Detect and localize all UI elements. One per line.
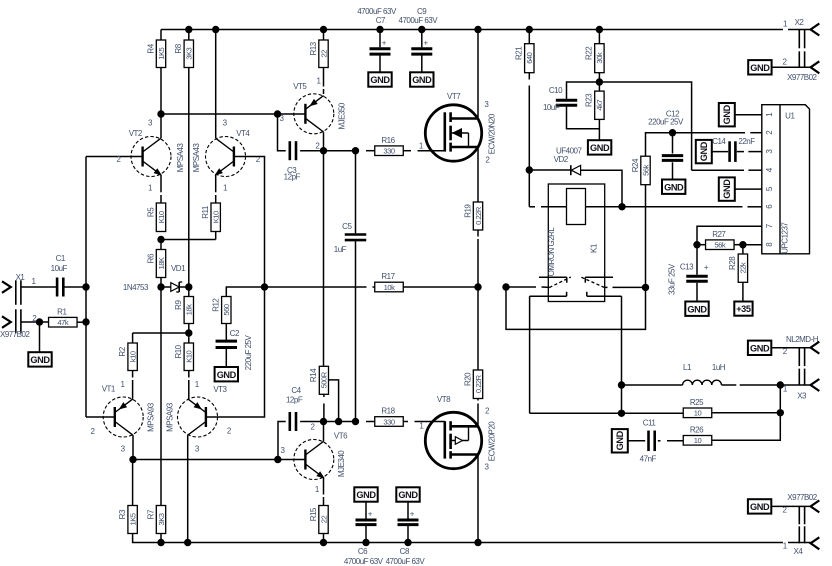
wire: R2 to VT1 emitter (132, 371, 134, 378)
junction: VT5 collector node (320, 147, 327, 154)
wire: VT6 base (278, 459, 306, 461)
svg-text:C5: C5 (342, 222, 352, 231)
inductor L1 1uH (622, 384, 683, 386)
svg-text:R23: R23 (585, 93, 594, 107)
svg-text:10uF: 10uF (51, 264, 68, 273)
wire: R9 to R10 node (188, 324, 190, 334)
wire: U1 pin 5 to GND (735, 188, 762, 190)
svg-text:MJE350: MJE350 (338, 102, 347, 129)
wire: speaker row to R25 row link (530, 412, 622, 414)
junction: VT5 base / C3 (274, 110, 281, 117)
wire: R7 to -rail (160, 534, 162, 543)
svg-text:22: 22 (319, 50, 328, 58)
relay contact left: moving arm (549, 277, 570, 288)
resistor R28 (742, 245, 744, 254)
wire: relay coil left pin (528, 170, 530, 207)
wire: VT2 collector to R4 node (160, 114, 162, 138)
svg-text:220uF 25V: 220uF 25V (648, 118, 684, 127)
wire: R4 bottom pin (160, 68, 162, 115)
svg-text:GND: GND (687, 304, 707, 314)
svg-text:C8: C8 (400, 547, 410, 556)
wire: VT4 emitter to R11 (215, 175, 217, 193)
svg-text:GND: GND (750, 502, 770, 512)
wire: delay node to U1 pin 4 (599, 82, 691, 170)
wire: U1 pin 1 to GND (735, 114, 762, 116)
svg-text:1uF: 1uF (334, 245, 347, 254)
svg-text:4700uF 63V: 4700uF 63V (344, 557, 384, 566)
wire: R1 left junction to GND (39, 322, 41, 352)
svg-text:10uF: 10uF (543, 103, 560, 112)
ground GND (R23) (588, 140, 611, 154)
wire: VT1 collector down (132, 435, 134, 459)
junction: X3 pin1 node (777, 381, 784, 388)
svg-text:GND: GND (590, 143, 610, 153)
junction: C9 on +rail (418, 26, 425, 33)
wire: U1 pin 2 row (673, 132, 746, 134)
svg-text:U1: U1 (785, 112, 795, 121)
svg-text:R10: R10 (174, 344, 183, 358)
wire: VT3 base to feedback node (206, 287, 264, 417)
junction: VT2 collector / R4 / VT5 base drive (157, 110, 164, 117)
svg-text:GND: GND (615, 430, 625, 450)
capacitor C5 1uF (355, 151, 357, 234)
svg-text:R21: R21 (515, 46, 524, 60)
svg-text:4700uF 63V: 4700uF 63V (357, 7, 397, 16)
resistor R17 (feedback 10k) (265, 286, 367, 288)
wire: VT4 base to feedback node (234, 157, 265, 288)
svg-text:10: 10 (694, 409, 702, 418)
wire: left NO contact down to speaker node (530, 295, 567, 297)
svg-text:VD1: VD1 (171, 264, 186, 273)
wire: R16 to VT7 gate (403, 150, 411, 152)
wire: X4 pin 2 to GND (771, 505, 810, 507)
resistor R5 (156, 203, 165, 232)
svg-text:k10: k10 (128, 351, 137, 362)
ground GND (X4) (748, 499, 771, 513)
wire: R22 to delay node (598, 73, 600, 82)
resistor R19 (473, 202, 482, 230)
capacitor C7 4700uF 63V (379, 30, 381, 48)
svg-text:GND: GND (356, 490, 376, 500)
svg-text:R16: R16 (381, 136, 395, 145)
svg-text:330: 330 (383, 417, 394, 426)
junction: R25/R26 right node (777, 409, 784, 416)
svg-text:GND: GND (30, 355, 50, 365)
resistor R8 (188, 30, 190, 41)
junction: VT7 drain on +rail (474, 26, 481, 33)
junction: feedback node R12/R17 (261, 283, 268, 290)
wire: +35V top supply rail (161, 29, 783, 31)
svg-text:GND: GND (722, 104, 732, 124)
resistor R15 (319, 506, 328, 534)
junction: R27 right / R28 / U1 pin 8 (739, 241, 746, 248)
svg-text:X3: X3 (797, 392, 807, 401)
junction: VT8 drain on -rail (474, 539, 481, 546)
wire: output node bypass under relay (506, 287, 646, 329)
transistor VT7 ECW20N20 (N-MOSFET) (425, 105, 481, 161)
svg-text:K10: K10 (157, 211, 166, 223)
wire: input node vertical (VT2 base to VT1 base) (85, 157, 87, 418)
wire: R14 bottom pin (323, 394, 325, 397)
wire: C4 to gate drive node (300, 421, 323, 423)
svg-text:R3: R3 (118, 509, 127, 519)
resistor R16 (375, 146, 404, 156)
junction: C6 on -rail (362, 539, 369, 546)
svg-text:VT7: VT7 (447, 92, 461, 101)
svg-text:X977B02: X977B02 (787, 493, 817, 502)
ground GND (C8) (396, 487, 419, 501)
svg-text:VT4: VT4 (236, 129, 250, 138)
svg-text:VT3: VT3 (213, 385, 227, 394)
wire: R10 to VT3 emitter (188, 371, 190, 378)
wire: VT5 collector node to C5 node (324, 150, 356, 152)
svg-text:L1: L1 (683, 363, 692, 372)
svg-text:R8: R8 (174, 43, 183, 53)
svg-text:10: 10 (694, 436, 702, 445)
svg-text:640: 640 (525, 52, 534, 63)
relay contact right: NC fixed contact (585, 276, 613, 278)
junction: C5 bottom node (352, 418, 359, 425)
svg-text:X2: X2 (795, 18, 805, 27)
wire: R28 to +35 (742, 282, 744, 301)
wire: right NO contact down to speaker node (621, 296, 623, 413)
wire: C3 to VT5 collector node (300, 150, 323, 152)
resistor R6 (160, 240, 162, 250)
ground GND (X3) (748, 341, 771, 355)
junction: R21 on +rail (526, 26, 533, 33)
resistor R1 (49, 317, 78, 327)
svg-text:MPSA43: MPSA43 (192, 143, 201, 173)
svg-text:C1: C1 (56, 254, 66, 263)
junction: output node at R19/R20 (474, 283, 481, 290)
svg-text:UPC1237: UPC1237 (780, 222, 789, 254)
resistor R13 (323, 30, 325, 41)
svg-text:VD2: VD2 (554, 155, 569, 164)
svg-text:30k: 30k (595, 52, 604, 63)
transistor VT3 MPSA93 (mirrored) (178, 397, 218, 437)
svg-text:R22: R22 (585, 46, 594, 60)
capacitor C14 22nF (728, 141, 731, 162)
svg-text:47nF: 47nF (640, 454, 657, 463)
svg-text:R12: R12 (212, 298, 221, 312)
junction: R13 on +rail (320, 26, 327, 33)
svg-text:4700uF 63V: 4700uF 63V (399, 16, 439, 25)
svg-text:1K5: 1K5 (157, 47, 166, 59)
wire: X3 pin 1 (780, 384, 810, 386)
resistor R9 (188, 287, 190, 297)
wire: VT5 collector down (323, 132, 325, 151)
svg-text:MPSA93: MPSA93 (146, 402, 155, 432)
svg-text:3K3: 3K3 (185, 47, 194, 59)
svg-text:OMRON G2RL: OMRON G2RL (547, 227, 556, 277)
wire: U1 pin 6 row (622, 206, 743, 208)
svg-text:33uF 25V: 33uF 25V (667, 263, 676, 295)
svg-text:R1: R1 (57, 307, 67, 316)
junction: VT6 base / C4 (274, 456, 281, 463)
capacitor C3 12pF (288, 141, 291, 160)
wire: to R16 (356, 150, 360, 152)
svg-text:R5: R5 (146, 207, 155, 217)
svg-text:12pF: 12pF (286, 396, 303, 405)
resistor R2 (132, 333, 134, 343)
resistor R21 (528, 30, 530, 44)
wire: R27 to U1 pin 8 (734, 244, 743, 246)
capacitor C2 220uF 25V (216, 340, 238, 343)
svg-text:0.22R: 0.22R (474, 206, 483, 225)
junction: relay coil left / VD2 cathode / R21 (526, 166, 533, 173)
wire: C14 left leg (712, 151, 728, 153)
wire: C10 bottom to R23 pin (567, 107, 600, 129)
junction: diff pair tail node (157, 236, 164, 243)
svg-text:C9: C9 (417, 7, 427, 16)
wire: VT4 collector to +rail (215, 30, 217, 139)
ground GND (C7) (368, 72, 391, 86)
svg-text:R6: R6 (146, 253, 155, 263)
ground GND (C2) (215, 367, 238, 381)
svg-text:R19: R19 (463, 204, 472, 218)
svg-text:UF4007: UF4007 (556, 146, 583, 155)
junction: input node at C1/R1 (82, 283, 89, 290)
svg-text:56k: 56k (714, 241, 725, 250)
wire: VT7 source to R19 (477, 147, 479, 202)
svg-text:4700uF 63V: 4700uF 63V (386, 557, 426, 566)
resistor R26 (683, 436, 712, 446)
svg-text:C4: C4 (291, 386, 301, 395)
resistor R22 (598, 30, 600, 44)
wire: X1 pin1 to C1 (21, 286, 56, 288)
capacitor C10 10uF (556, 99, 577, 102)
capacitor C13 33uF 25V (696, 245, 698, 275)
svg-text:R26: R26 (690, 425, 704, 434)
wire: output node into left contact (506, 286, 536, 288)
wire: VT8 source to R20 (477, 404, 479, 427)
junction: R24 bottom / relay right node (642, 284, 649, 291)
resistor R14 500R (preset) (319, 366, 328, 394)
transistor VT8 ECW20P20 (P-MOSFET) (425, 412, 481, 468)
svg-text:R18: R18 (381, 407, 395, 416)
wire: R24 bottom pin (645, 185, 647, 288)
svg-text:R11: R11 (201, 205, 210, 219)
transistor VT1 MPSA93 (103, 397, 143, 437)
junction: VT3 collector on -rail (184, 539, 191, 546)
relay contact right: moving arm (581, 277, 605, 288)
wire: VT2 emitter to R5 (160, 175, 162, 193)
ground GND (C14) (696, 140, 712, 163)
svg-text:MPSA93: MPSA93 (165, 402, 174, 432)
svg-text:R27: R27 (712, 230, 726, 239)
svg-text:12pF: 12pF (284, 173, 301, 182)
svg-text:22k: 22k (739, 262, 748, 273)
svg-text:VT8: VT8 (437, 395, 451, 404)
svg-text:C11: C11 (643, 418, 657, 427)
svg-text:22: 22 (319, 516, 328, 524)
wire: base of VT2 (86, 156, 143, 158)
wire: R8 bottom to zener node (188, 68, 190, 288)
wire: X1 pin2 to R1 (21, 321, 49, 323)
resistor R11 (211, 203, 220, 232)
junction: input node at R1 (82, 318, 89, 325)
svg-text:X1: X1 (16, 273, 26, 282)
svg-text:X977B02: X977B02 (0, 330, 30, 339)
wire: R23 to GND (598, 119, 600, 140)
resistor R27 (697, 244, 706, 246)
junction: VT4 collector on +rail (212, 26, 219, 33)
svg-text:C6: C6 (358, 547, 368, 556)
ground GND (input) (28, 352, 51, 366)
wire: VT3 collector to -rail (187, 435, 189, 542)
connector X1 (input) (2, 281, 11, 293)
svg-text:C7: C7 (376, 16, 386, 25)
wire: R17 to output node (403, 286, 477, 288)
junction: R8 on +rail (185, 26, 192, 33)
junction: R27 left / C13 / U1 pin 7 (693, 241, 700, 248)
wire: U1 pin 8 row (743, 244, 762, 246)
svg-text:R4: R4 (146, 43, 155, 53)
svg-text:47k: 47k (57, 318, 68, 327)
wire: gate drive row (324, 421, 360, 423)
svg-text:MPSA43: MPSA43 (176, 143, 185, 173)
svg-text:R20: R20 (463, 372, 472, 386)
svg-text:MJE340: MJE340 (337, 450, 346, 477)
svg-text:GND: GND (750, 343, 770, 353)
svg-text:18k: 18k (185, 304, 194, 315)
svg-text:GND: GND (412, 75, 432, 85)
svg-text:GND: GND (370, 75, 390, 85)
junction: R15 on -rail (320, 539, 327, 546)
svg-text:R13: R13 (309, 41, 318, 55)
wire: -35V bottom supply rail (133, 542, 783, 544)
transistor VT5 MJE350 (294, 94, 334, 134)
svg-text:ECW/20N20: ECW/20N20 (487, 113, 496, 154)
junction: R14 wiper node (335, 418, 342, 425)
relay K1 coil (567, 189, 586, 225)
wire: R3 to -rail (132, 534, 134, 543)
svg-text:GND: GND (664, 182, 684, 192)
diode VD2 UF4007 (529, 169, 571, 171)
junction: C7 on +rail (376, 26, 383, 33)
wire: VT6 collector up (323, 422, 325, 442)
svg-text:220uF 25V: 220uF 25V (244, 335, 253, 371)
svg-text:C10: C10 (549, 86, 563, 95)
transistor VT6 MJE340 (294, 440, 334, 480)
IC U1 UPC1237 (762, 105, 810, 254)
junction: delay node R22/R23/C10 (596, 78, 603, 85)
svg-text:R2: R2 (118, 346, 127, 356)
svg-text:0.22R: 0.22R (474, 374, 483, 393)
svg-text:1K5: 1K5 (128, 513, 137, 525)
junction: C8 on -rail (404, 539, 411, 546)
svg-text:22nF: 22nF (738, 137, 755, 146)
wire: R19 to output node (477, 230, 479, 237)
transistor VT4 MPSA43 (mirrored) (206, 137, 246, 177)
wire: VT7 drain to +rail (477, 30, 479, 119)
resistor R23 (598, 82, 600, 91)
svg-text:R15: R15 (309, 507, 318, 521)
wire: tail node row R5/R11 (161, 239, 216, 241)
ground GND (C6) (354, 487, 377, 501)
resistor R4 (160, 30, 162, 41)
ground GND (C9) (410, 72, 433, 86)
wire: base of VT1 (86, 416, 115, 418)
svg-text:4k7: 4k7 (595, 100, 604, 111)
svg-text:C13: C13 (680, 263, 694, 272)
capacitor C9 4700uF 63V (421, 30, 423, 48)
wire: R26 to X3 node (712, 413, 781, 441)
junction: output node left of relay (502, 283, 509, 290)
junction: R22 on +rail (596, 26, 603, 33)
svg-text:R7: R7 (146, 509, 155, 519)
junction: R7 on -rail (157, 539, 164, 546)
relay K1 outline (548, 184, 604, 302)
wire: relay coil right pin (586, 206, 623, 208)
wire: C2 to GND (225, 348, 227, 368)
svg-text:C2: C2 (230, 329, 240, 338)
wire: R13 to VT5 emitter (323, 68, 325, 87)
wire: R14 wiper to bottom (329, 380, 339, 422)
junction: C5 top node (352, 147, 359, 154)
wire: X3 node vertical (779, 385, 781, 413)
connector X3 (811, 342, 820, 354)
wire: R20 to output node (477, 287, 479, 370)
ground GND (U1 pin 1) (719, 103, 735, 126)
wire: R18 to VT8 gate (403, 421, 408, 423)
svg-text:500R: 500R (320, 371, 329, 388)
wire: C5 to gate drive row (355, 241, 357, 421)
svg-text:R14: R14 (309, 368, 318, 382)
wire: lower bias row R2 to R10 (133, 332, 189, 334)
wire: R1 to input node (77, 321, 86, 323)
ground GND (C13) (685, 302, 708, 316)
junction: gate drive node at VT6 collector (320, 418, 327, 425)
wire: delay node to C10 (567, 82, 600, 99)
ground GND (C11) (612, 429, 628, 452)
relay contact left: NO fixed contact (530, 295, 567, 297)
svg-text:56k: 56k (641, 164, 650, 175)
wire: R25 to X3 node (712, 412, 781, 414)
svg-text:NL2MD-H: NL2MD-H (786, 335, 819, 344)
resistor R25 (622, 412, 684, 414)
wire: R21 to relay coil node (528, 73, 530, 80)
wire: C1 to input node (64, 286, 86, 288)
svg-text:R25: R25 (690, 398, 704, 407)
transistor VT2 MPSA43 (131, 137, 171, 177)
wire: R15 to -rail (323, 534, 325, 543)
svg-text:R28: R28 (728, 256, 737, 270)
capacitor C8 4700uF 63V (407, 502, 409, 519)
junction: zener VD1 anode node (157, 283, 164, 290)
svg-text:R9: R9 (174, 300, 183, 310)
resistor R18 (375, 417, 404, 427)
connector X4 (811, 500, 820, 512)
svg-text:GND: GND (750, 63, 770, 73)
svg-text:C14: C14 (712, 137, 726, 146)
resistor R10 (188, 333, 190, 343)
resistor R24 (646, 133, 673, 157)
svg-text:VT2: VT2 (129, 129, 143, 138)
wire: X2 pin 2 to GND (772, 66, 811, 68)
svg-text:ECW/20P20: ECW/20P20 (487, 421, 496, 462)
junction: zener cathode / R8 / R9 (185, 283, 192, 290)
wire: VT8 drain to -rail (477, 455, 479, 543)
svg-text:K10: K10 (212, 211, 221, 223)
svg-text:K1: K1 (589, 243, 598, 253)
junction: C12 / U1 pin 2 node (669, 129, 676, 136)
svg-text:R17: R17 (381, 272, 395, 281)
svg-text:X4: X4 (794, 547, 804, 556)
svg-text:1N4753: 1N4753 (123, 283, 149, 292)
wire: VT5 collector column to R14 (323, 151, 325, 367)
wire: right contact to R24 node (604, 286, 607, 288)
